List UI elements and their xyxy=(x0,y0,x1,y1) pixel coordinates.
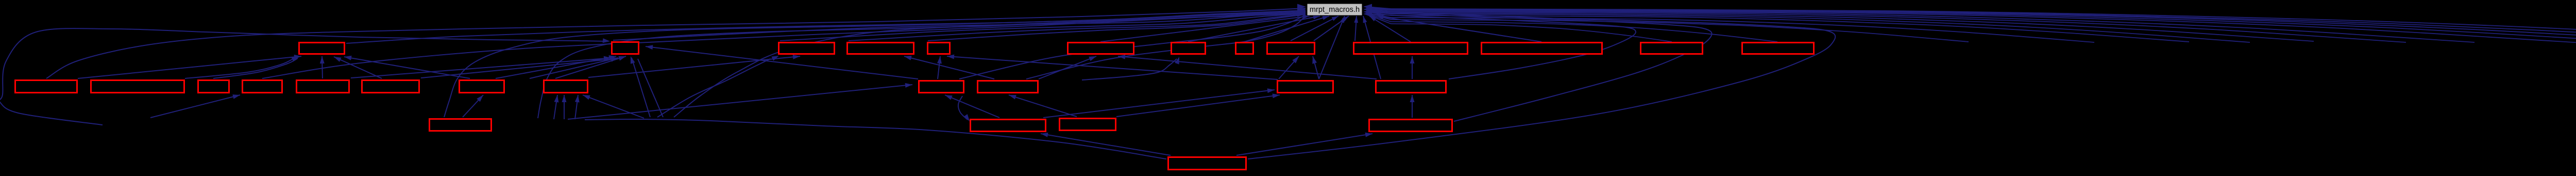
wire root-bottom-fan x2633 xyxy=(1355,16,1357,41)
node A10 (truncated includer) xyxy=(1354,43,1468,54)
wire C1 hook around A13 xyxy=(1248,11,1835,159)
node C1 (truncated includer) xyxy=(1168,157,1246,170)
wire B2 to A1 curved xyxy=(185,58,295,78)
wire right-fan 3 xyxy=(1391,20,1969,42)
node B3 (truncated includer) xyxy=(198,81,229,93)
wire D3>B10 xyxy=(1009,95,1077,117)
wire B1 to root spline xyxy=(46,8,1306,78)
wire root-bottom-fan x2658 xyxy=(1369,16,1411,42)
wire root-bottom-fan x2672 xyxy=(1377,16,1541,42)
node B4 (truncated includer) xyxy=(243,81,282,93)
wire B12>A6 xyxy=(1118,56,1377,79)
wire root-bottom-fan x2646 xyxy=(1363,16,1381,79)
wire B11>A9 xyxy=(1279,56,1299,79)
wire root-bottom-fan x2618 xyxy=(1314,16,1349,41)
node B11 (truncated includer) xyxy=(1278,81,1333,93)
wire right-fan 6 xyxy=(1391,14,2250,42)
wire right-fan 1 xyxy=(1391,24,1672,42)
svg-text:mrpt_macros.h: mrpt_macros.h xyxy=(1310,6,1360,14)
node D1 (truncated includer) xyxy=(430,119,492,131)
wire J1 to root spline left of B8 xyxy=(538,13,1306,118)
wire left-fan B9 to root xyxy=(959,15,1306,79)
node A1 (truncated includer) xyxy=(299,43,345,54)
wire B12>A10 xyxy=(1412,56,1413,79)
node B5 (truncated includer) xyxy=(297,81,349,93)
wire right-fan 8 xyxy=(1391,12,2406,42)
wire left-fan A1 to root xyxy=(346,11,1306,43)
wire right-fan 7 xyxy=(1391,13,2314,41)
wire B3 to A1 curved xyxy=(213,58,298,78)
wire J2 to root spline through B8-B9 gap xyxy=(674,12,1306,117)
wire B9>A2 xyxy=(646,46,918,79)
wire right-fan 10 xyxy=(1391,10,2576,43)
wire left-fan B10 to root xyxy=(1026,15,1306,79)
wire D4 hook around A12 xyxy=(1369,12,1712,121)
node root mrpt_macros.h xyxy=(1307,4,1362,15)
wire left-fan A3 to root xyxy=(780,13,1306,41)
wire B6>A1 xyxy=(334,57,382,78)
node A5 (truncated includer) xyxy=(928,43,950,54)
node A8 (truncated includer) xyxy=(1236,43,1253,54)
wire curl into A7 bottom from gap node xyxy=(1082,59,1177,80)
wire right-fan 13 xyxy=(1391,9,2576,42)
wire right-fan 2 xyxy=(1391,22,1777,42)
wire right-fan 9 xyxy=(1391,11,2475,42)
node B2 (truncated includer) xyxy=(91,81,184,93)
node A13 (truncated includer) xyxy=(1742,43,1814,54)
wire B1>A1 xyxy=(78,56,301,78)
wire J2 to A3 curve xyxy=(657,59,770,117)
node B10 (truncated includer) xyxy=(978,81,1038,93)
wire left-fan A4 to root xyxy=(849,14,1306,41)
wire right-fan 11 xyxy=(1391,10,2576,42)
wire left-fan A2 to root xyxy=(613,13,1306,40)
junction arrowheads into root left edge xyxy=(1297,4,1306,10)
wire D2>B9 xyxy=(945,95,999,118)
wire C1 swoop to junction J1 xyxy=(585,119,1166,159)
wire right-fan 4 xyxy=(1391,18,2094,42)
node D2 (truncated includer) xyxy=(971,120,1046,132)
wire B10>A4 xyxy=(904,56,994,79)
wire left-fan B4 to root xyxy=(262,11,1306,78)
wire big left arc to A2 xyxy=(0,28,605,125)
wire root-bottom-fan x2562 xyxy=(1188,16,1320,42)
wire D1>B7 xyxy=(463,95,483,117)
wire J1>B8b xyxy=(554,95,557,119)
node A2 (truncated includer) xyxy=(612,42,639,54)
node D4 (truncated includer) xyxy=(1369,120,1452,132)
wire curl into D2 left xyxy=(958,96,968,120)
wire D4>B12 xyxy=(1412,95,1413,118)
wire B5>A1 xyxy=(322,56,323,78)
node A6 (truncated includer) xyxy=(1068,43,1134,54)
node A4 (truncated includer) xyxy=(848,43,914,54)
wire B6 to A2 xyxy=(421,59,610,78)
node A11 (truncated includer) xyxy=(1482,43,1602,54)
wire J1>B9 xyxy=(568,85,912,119)
node B12 (truncated includer) xyxy=(1376,81,1446,93)
node B6 (truncated includer) xyxy=(362,81,419,93)
wire J2>B8 xyxy=(583,95,644,118)
node A9 (truncated includer) xyxy=(1267,43,1315,54)
wire right-fan 12 xyxy=(1391,9,2576,42)
node A3 (truncated includer) xyxy=(779,43,835,54)
node B8 (truncated includer) xyxy=(544,81,588,93)
node B7 (truncated includer) xyxy=(460,81,504,93)
wire C1>D4 xyxy=(1236,134,1372,155)
wire left-fan A5 to root xyxy=(928,14,1306,41)
wire root-bottom-fan x2580 xyxy=(1244,16,1329,42)
wire B8>A3 xyxy=(588,56,800,77)
wire root-bottom-fan x2542 xyxy=(1100,16,1310,42)
wire root-bottom-fan x2610 xyxy=(1319,16,1345,79)
junction arrowheads into root right edge xyxy=(1363,4,1372,10)
wire B5 to A2 xyxy=(351,58,607,78)
wire J2 to A2 long left xyxy=(632,58,650,117)
wire J2 to A2 long right xyxy=(638,59,663,117)
wire root-bottom-fan x2598 xyxy=(1291,16,1338,41)
node B9 (truncated includer) xyxy=(919,81,964,93)
wire right-fan 5 xyxy=(1391,15,2189,42)
wire B11>A5 xyxy=(947,56,1278,79)
wire D2>B11 xyxy=(1043,90,1275,118)
wire J1>B8 xyxy=(564,95,565,119)
node A7 (truncated includer) xyxy=(1172,43,1206,54)
wire N78>A2 xyxy=(530,58,618,78)
wire B7>A2 xyxy=(496,56,616,78)
node D3 (truncated includer) xyxy=(1060,119,1116,131)
wire B9>A5 xyxy=(938,56,940,79)
wire B11>A9b xyxy=(1313,56,1319,79)
wire J1>B8c xyxy=(575,95,578,119)
wire N2>B4 xyxy=(150,95,240,118)
wire B10>A6 xyxy=(1039,56,1096,79)
wire D1 to root spline through B6-B7 gap xyxy=(444,10,1306,117)
wire B8>A2 xyxy=(555,56,626,78)
wire C1>D2 xyxy=(1041,134,1171,155)
wire B12 hook around A11 xyxy=(1368,14,1636,79)
node A12 (truncated includer) xyxy=(1641,43,1703,54)
wire D3>B11 xyxy=(1116,95,1280,117)
wire right-fan 14 xyxy=(1391,9,2576,42)
node B1 (truncated includer) xyxy=(15,81,77,93)
wire B7>A1 xyxy=(344,57,470,78)
